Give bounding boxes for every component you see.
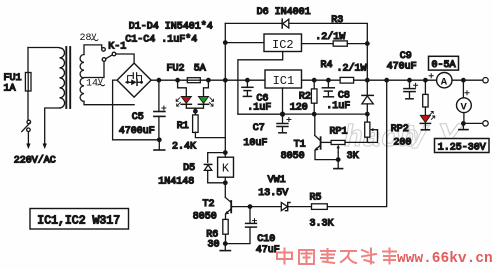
capacitor C5: [154, 80, 166, 140]
svg-text:IC1,IC2 W317: IC1,IC2 W317: [37, 215, 120, 228]
svg-text:FU2: FU2: [167, 63, 185, 74]
svg-text:IC1: IC1: [273, 74, 295, 88]
node indicator branch: [423, 78, 428, 83]
wire IC2 out to R3: [302, 43, 334, 45]
svg-text:3.3K: 3.3K: [310, 218, 334, 229]
svg-text:3K: 3K: [347, 151, 359, 162]
resistor R1: [193, 115, 199, 132]
label plus at voltmeter: [465, 91, 469, 95]
svg-text:28: 28: [80, 33, 92, 44]
wire main positive rail: [151, 79, 265, 81]
node R2 top: [312, 78, 317, 83]
arrow plug left: [26, 144, 30, 150]
node LED red branch: [175, 78, 180, 83]
ground below VD3: [421, 123, 429, 129]
wire ammeter to plus terminal: [452, 79, 483, 81]
svg-text:1A: 1A: [4, 83, 16, 94]
arrow plug right: [43, 144, 47, 150]
resistor R3: [333, 41, 347, 46]
capacitor C10: [225, 207, 256, 244]
terminal minus: [483, 121, 488, 126]
transistor T2: [225, 183, 233, 220]
wire riser x225: [224, 23, 226, 152]
node C9 top: [407, 78, 412, 83]
wire IC2 input: [225, 42, 264, 44]
svg-text:www.66kv.cn: www.66kv.cn: [397, 251, 493, 267]
ground below RP1 wiper: [334, 160, 343, 169]
op-amp regulator IC1: [265, 70, 302, 88]
capacitor C6: [242, 80, 253, 96]
watermark grey haoby: [344, 118, 486, 163]
capacitor C7: [277, 114, 291, 133]
wire bridge negative to ground rail: [113, 80, 160, 140]
fuse FU1: [25, 73, 31, 92]
relay coil K: [218, 153, 234, 183]
svg-text:4700uF: 4700uF: [119, 126, 155, 137]
diode D6: [282, 19, 289, 28]
svg-text:IC2: IC2: [272, 38, 294, 52]
watermark red chinese: [277, 249, 396, 265]
node C5 top: [157, 78, 162, 83]
diode D5: [204, 164, 225, 182]
svg-text:RP1: RP1: [330, 127, 348, 138]
node rail to IC2 riser: [223, 78, 228, 83]
svg-text:D5: D5: [183, 163, 195, 174]
resistor R7 indicator: [423, 80, 428, 115]
svg-text:VW1: VW1: [268, 175, 286, 186]
wire K-1 common to bridge: [116, 54, 134, 63]
wire relay top rail: [208, 153, 226, 163]
node T1 emitter RP1 wiper: [336, 157, 341, 162]
svg-text:R3: R3: [331, 15, 343, 26]
svg-text:T1: T1: [294, 140, 306, 151]
svg-text:R4: R4: [321, 60, 333, 71]
wire T2 base line: [232, 206, 281, 208]
node feedback top: [384, 78, 389, 83]
node C7 adj: [280, 112, 285, 117]
op-amp regulator IC2: [264, 34, 302, 52]
label 1.25-30V box: [435, 139, 490, 154]
label 0-5A box: [429, 56, 459, 71]
svg-text:470uF: 470uF: [387, 61, 417, 72]
zener VW1: [281, 203, 311, 211]
svg-text:200: 200: [393, 138, 411, 149]
svg-text:.2/1W: .2/1W: [337, 63, 367, 75]
svg-text:8050: 8050: [193, 211, 217, 222]
bridge rectifier D1-D4: [117, 63, 151, 97]
node protection diode top: [365, 78, 370, 83]
svg-text:13.5V: 13.5V: [258, 188, 288, 199]
svg-text:D6 IN4001: D6 IN4001: [257, 7, 311, 18]
wire IC2 adj path: [238, 52, 283, 115]
wire 220V AC live top: [28, 47, 59, 49]
wire 28V tap: [84, 45, 102, 55]
relay contact K-1: [102, 48, 116, 62]
capacitor C8: [322, 80, 334, 97]
wire IC1 adj: [282, 88, 284, 114]
node LED junction: [193, 109, 198, 114]
svg-text:C8: C8: [338, 91, 350, 102]
svg-text:R2: R2: [299, 91, 311, 102]
svg-text:2.4K: 2.4K: [172, 142, 196, 153]
wire switch to plug: [27, 132, 29, 144]
node IC2 input tap: [223, 40, 228, 45]
LED green VD2: [198, 97, 213, 107]
svg-text:.1uF: .1uF: [326, 101, 350, 112]
svg-text:R1: R1: [177, 121, 189, 132]
wire R1 to relay line: [195, 132, 225, 137]
svg-text:V: V: [461, 102, 468, 114]
svg-text:K-1: K-1: [108, 42, 126, 53]
wire red LED anode: [178, 80, 187, 96]
node LED green branch: [206, 78, 211, 83]
svg-text:R5: R5: [310, 192, 322, 203]
label IC1 IC2 W317 box: [30, 209, 129, 230]
svg-text:C7: C7: [253, 123, 265, 134]
node RP2 top: [365, 112, 370, 117]
wire R3 to node: [347, 43, 367, 45]
wire green LED anode: [204, 80, 209, 96]
transistor T1: [314, 114, 338, 160]
svg-text:C10: C10: [257, 234, 275, 245]
resistor R2: [311, 80, 317, 114]
label 28V: [80, 32, 98, 45]
LED red VD3: [420, 111, 434, 123]
node C8 top: [326, 78, 331, 83]
potentiometer RP2: [365, 114, 378, 142]
node R2 bottom: [312, 112, 317, 117]
svg-text:C1-C4 .1uF*4: C1-C4 .1uF*4: [125, 33, 197, 45]
node C10 top: [248, 204, 253, 209]
svg-text:T2: T2: [203, 199, 215, 210]
svg-text:.2/1W: .2/1W: [315, 31, 345, 43]
node voltmeter bottom: [461, 121, 466, 126]
potentiometer RP1: [321, 140, 368, 159]
transformer core: [66, 47, 70, 108]
svg-text:120: 120: [290, 102, 308, 113]
svg-text:.1uF: .1uF: [247, 103, 271, 114]
label 14V: [86, 77, 104, 90]
wire to fuse FU1: [27, 48, 29, 73]
LED red VD1: [176, 97, 191, 107]
svg-text:1N4148: 1N4148: [158, 176, 194, 187]
wire 14V tap: [84, 61, 104, 77]
svg-text:A: A: [441, 77, 448, 89]
wire feedback vertical: [327, 80, 386, 206]
transformer T primary winding: [60, 48, 65, 108]
node C6 top: [245, 78, 250, 83]
resistor R6: [223, 219, 228, 243]
node relay bottom: [223, 180, 228, 185]
wire LED cathodes join: [186, 104, 195, 108]
wire to minus terminal: [463, 122, 482, 124]
ammeter A: [437, 73, 452, 89]
svg-text:8050: 8050: [281, 151, 305, 162]
wire transformer primary bottom: [45, 108, 60, 144]
resistor R5: [312, 204, 328, 210]
wire node down to rail: [366, 44, 368, 81]
ground below voltmeter: [459, 123, 468, 129]
svg-text:30: 30: [208, 239, 220, 250]
svg-text:10uF: 10uF: [243, 138, 267, 149]
node C5 bottom: [157, 137, 162, 142]
svg-text:220V/AC: 220V/AC: [14, 155, 56, 167]
node relay top: [223, 150, 228, 155]
svg-text:C9: C9: [400, 51, 412, 62]
label plus before ammeter: [429, 74, 433, 78]
ground below C5: [154, 140, 165, 150]
svg-text:14: 14: [86, 78, 98, 89]
terminal plus: [483, 78, 488, 83]
svg-text:RP2: RP2: [391, 124, 409, 135]
node R6 bottom: [223, 241, 228, 246]
svg-text:5A: 5A: [194, 63, 206, 74]
svg-text:K: K: [222, 162, 230, 176]
diode D7 across IC1: [362, 80, 373, 114]
ground below R6: [220, 244, 230, 251]
wire adj rail: [238, 113, 367, 115]
wire D6 top: [225, 22, 282, 24]
node R3 D6: [365, 41, 370, 46]
svg-text:0-5A: 0-5A: [432, 60, 456, 71]
wire fuse to switch: [27, 91, 29, 120]
svg-text:FU1: FU1: [4, 73, 22, 84]
resistor R4: [340, 77, 354, 83]
voltmeter V: [457, 80, 472, 123]
svg-text:D1-D4 IN5401*4: D1-D4 IN5401*4: [129, 20, 213, 32]
transformer secondary winding: [80, 55, 84, 102]
wire secondary bottom to bridge: [84, 101, 134, 104]
fuse FU2: [187, 78, 200, 83]
switch S1: [22, 120, 31, 131]
svg-text:1.25-30V: 1.25-30V: [438, 142, 486, 153]
capacitor C9: [404, 80, 418, 99]
svg-text:C5: C5: [132, 112, 144, 123]
node voltmeter tap: [461, 78, 466, 83]
